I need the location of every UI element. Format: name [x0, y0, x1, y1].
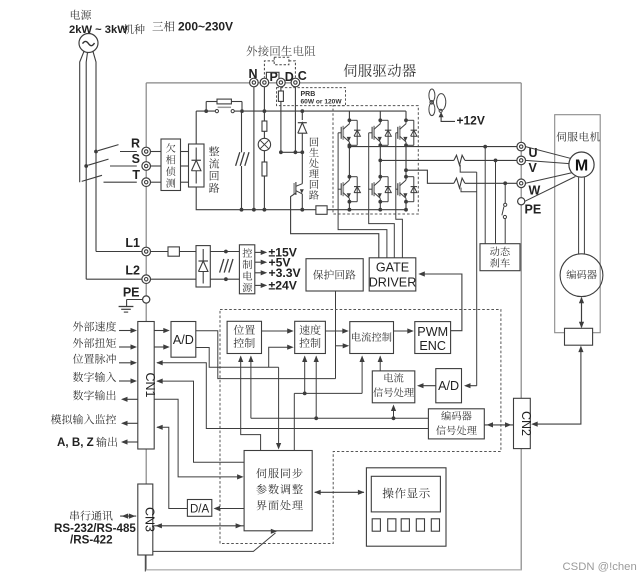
svg-text:M: M [575, 157, 588, 174]
terminal L2 [142, 275, 151, 284]
switch SW-S [88, 159, 108, 165]
wire [263, 151, 265, 162]
wire phase1 [80, 51, 85, 182]
wire csp-current1 [361, 357, 363, 394]
switch SW-R [98, 145, 119, 151]
supply output +3.3V [255, 272, 265, 274]
fuse L1 [151, 251, 169, 253]
svg-text:W: W [529, 184, 541, 198]
wire negative bus [242, 209, 316, 211]
svg-text:CN3: CN3 [142, 507, 156, 532]
wire gate bus leg3 [395, 133, 397, 189]
node bus cap [240, 109, 244, 113]
supply output &#177;15V [255, 251, 265, 253]
wire rect bottom [196, 187, 241, 210]
svg-text:CN2: CN2 [519, 411, 533, 436]
wire current sense tap V [460, 165, 477, 172]
label 位置脉冲 [73, 354, 116, 364]
block 电流控制 [350, 322, 394, 354]
wire P line [263, 87, 265, 121]
wire PE-motor [525, 177, 576, 202]
wire [263, 176, 265, 210]
svg-text:S: S [132, 152, 140, 166]
svg-text:V: V [529, 161, 538, 175]
node diode top [300, 109, 304, 113]
block 欠相侦测 [161, 139, 181, 191]
wire CN3 serial [153, 533, 276, 552]
label 三相 200~230V [153, 21, 175, 32]
wire gate bus leg1 [337, 133, 339, 189]
block A/D 2 [436, 369, 462, 403]
node P bus [263, 109, 267, 113]
motor shaft [578, 177, 580, 254]
wire param bus [294, 392, 362, 394]
terminal S [142, 162, 151, 171]
encoder connector box [565, 328, 593, 345]
resistor bleeder R2 [262, 121, 267, 131]
terminal U [517, 142, 526, 151]
node soft-charge left [204, 109, 208, 113]
wire current-PWM [394, 330, 412, 332]
capacitor C1 [241, 111, 243, 152]
wire phase2 [86, 52, 87, 279]
wire gate2 [369, 189, 395, 258]
AC source G1 [79, 34, 98, 53]
terminal PE [143, 296, 150, 303]
label 回生处理回路 [309, 137, 319, 199]
switch SW-T [82, 175, 102, 181]
wire pos riser1 [241, 357, 261, 451]
block 动态刹车 [480, 244, 520, 271]
terminal C [291, 78, 300, 87]
wire U-motor [526, 147, 571, 159]
node S tap [84, 164, 88, 168]
svg-text:PRB: PRB [301, 91, 316, 98]
wire leg2 mid [379, 145, 381, 176]
wire AD2-csp [419, 385, 436, 387]
terminal L1 [142, 247, 151, 256]
wire to 伺服同步 top [278, 367, 280, 444]
wire csp-current2 [379, 357, 381, 371]
wire U phase [348, 145, 352, 149]
transistor lower Q6 [404, 175, 408, 179]
wire AD out1 [196, 331, 336, 379]
switch brake W [504, 183, 506, 203]
fan [437, 94, 446, 111]
encoder 编码器 [560, 254, 603, 297]
label 数字输出 [73, 390, 116, 400]
svg-text:±24V: ±24V [269, 279, 298, 293]
wire PWM-GATE [420, 274, 462, 331]
wire protection down [335, 291, 337, 379]
wire branch to speed [269, 347, 292, 367]
terminal V [517, 156, 526, 165]
wire DA-CN1 [157, 427, 187, 508]
jumper P-D [266, 72, 279, 78]
wire current sense down [476, 172, 478, 386]
wire CN1-AD 2 [154, 346, 168, 348]
wire encoder-CN2 [535, 352, 581, 425]
terminal P [260, 78, 269, 87]
label power source 电源 [71, 10, 91, 20]
wire V phase [378, 159, 382, 163]
wire L1 feed [96, 251, 142, 253]
wire CN1-AD 1 [154, 330, 168, 332]
wire gate3 [396, 189, 403, 258]
external resistor (dashed) [274, 57, 289, 65]
diode regen D1 [301, 111, 303, 120]
node R tap [94, 150, 98, 154]
terminal D [277, 78, 286, 87]
svg-text:GATE: GATE [376, 261, 409, 275]
wire leg3 mid [405, 145, 407, 176]
label 整流回路 [209, 146, 219, 193]
terminal N [250, 78, 259, 87]
capacitor C2 [225, 252, 227, 259]
relay contact MC [215, 110, 218, 113]
block 伺服同步参数调整界面处理 [244, 451, 312, 531]
PRB box (dashed) [277, 88, 346, 106]
wire pos-speed [262, 330, 292, 332]
terminal R [142, 147, 151, 156]
supply output +5V [255, 261, 265, 263]
block PWM ENC [415, 322, 451, 354]
wire CN1 digital-out [154, 399, 241, 477]
svg-text:T: T [132, 168, 140, 182]
terminal PE motor [518, 198, 525, 205]
wire L2 feed [86, 278, 142, 280]
rectifier BR1 [189, 144, 205, 187]
wire W-motor [526, 173, 572, 184]
block A/D [171, 322, 196, 358]
wire U1-rect S [181, 165, 189, 167]
resistor soft-charge [217, 99, 231, 104]
shunt box [316, 206, 327, 215]
terminal T [142, 178, 151, 187]
wire encoder rail1 [251, 417, 429, 419]
display screen [371, 476, 440, 512]
wire W phase [404, 168, 408, 172]
svg-text:+12V: +12V [457, 114, 485, 128]
label 伺服电机 [556, 132, 600, 142]
wire AD out2 [196, 348, 279, 368]
wire [210, 251, 239, 253]
wire D-C link [281, 151, 302, 153]
wire leg1 mid [348, 145, 350, 176]
block GATE DRIVER [369, 258, 416, 291]
transistor upper Q1 [348, 111, 350, 120]
svg-text:C: C [298, 69, 307, 83]
svg-text:L2: L2 [125, 264, 140, 278]
arrow encoder-connector [581, 298, 583, 328]
block D/A [187, 500, 211, 517]
wire U1-rect T [181, 181, 189, 183]
wire bus right [244, 110, 406, 112]
wire T to U1 [151, 181, 162, 183]
wire V-motor [526, 160, 570, 163]
transistor upper Q3 [405, 111, 407, 120]
svg-text:ENC: ENC [419, 339, 446, 353]
svg-text:PWM: PWM [417, 325, 448, 339]
label 外部速度 [73, 321, 116, 331]
wire csp tap [393, 406, 395, 419]
wire U1-rect R [181, 151, 189, 153]
servo motor box [555, 115, 601, 333]
connector CN3 [138, 484, 153, 555]
wire sync-DA [215, 508, 245, 510]
lamp charge indicator [258, 138, 270, 150]
wire current sense tap W [461, 188, 477, 192]
svg-text:A/D: A/D [438, 379, 459, 393]
arrow sync-display [315, 491, 364, 493]
wire pos riser2 [250, 357, 252, 419]
servo drive enclosure [146, 83, 521, 570]
svg-text:CSDN @!chen: CSDN @!chen [563, 561, 637, 573]
transistor upper Q2 [379, 111, 381, 120]
svg-text:L1: L1 [125, 236, 140, 250]
terminal W [517, 179, 526, 188]
digital section (dashed) [220, 310, 501, 544]
svg-text:2kW ~ 3kW: 2kW ~ 3kW [69, 24, 128, 36]
arrow esp-CN2 [484, 424, 513, 426]
connector CN2 [514, 398, 531, 448]
wire CN1 digital-in [157, 381, 244, 462]
wire [263, 131, 265, 138]
wire 伺服同步 riser [293, 393, 295, 450]
wire PE-CN1 edge [145, 303, 147, 321]
block 位置控制 [227, 321, 261, 353]
label 数字输入 [73, 372, 116, 382]
block 操作显示 panel [366, 468, 446, 546]
svg-text:/RS-422: /RS-422 [70, 534, 113, 547]
display buttons [372, 519, 380, 531]
wire sense-AD2 [464, 383, 471, 388]
block control rectifier [196, 246, 210, 287]
label 外接回生电阻 [247, 46, 316, 57]
block 电流信号处理 [372, 371, 415, 403]
wire rect top [195, 111, 197, 144]
label 模拟输入监控 [51, 414, 116, 424]
wire bus left [196, 110, 215, 112]
ground [127, 299, 143, 301]
wire brake V [495, 160, 497, 243]
svg-text:A, B, Z: A, B, Z [57, 436, 94, 449]
connector CN1 [138, 322, 154, 450]
wire speed riser1 [304, 357, 306, 394]
wire gate1 [338, 189, 387, 258]
arrow CN3-sync [153, 525, 243, 527]
svg-text:DRIVER: DRIVER [369, 276, 417, 290]
svg-text:PE: PE [525, 203, 542, 217]
supply output &#177;24V [255, 284, 265, 286]
motor M [569, 152, 594, 177]
wire N line [253, 87, 255, 210]
transistor lower Q5 [378, 175, 382, 179]
label 外部扭矩 [73, 338, 116, 348]
wire phase3 [93, 51, 96, 252]
wire R to U1 [151, 151, 162, 153]
wire CN3 stub [144, 555, 146, 572]
svg-text:D/A: D/A [190, 503, 210, 515]
resistor regen internal [280, 87, 282, 91]
wire brake U [484, 147, 486, 244]
svg-text:A/D: A/D [173, 333, 194, 347]
inverter bridge box (dashed) [333, 106, 418, 214]
wire C line [294, 87, 296, 153]
wire regen gate [291, 193, 379, 258]
wire S to U1 [151, 165, 162, 167]
relay bar [218, 106, 231, 108]
svg-text:PE: PE [123, 286, 140, 300]
svg-text:R: R [131, 137, 140, 151]
label 串行通讯 [70, 511, 112, 521]
wire L2 [151, 278, 197, 280]
block 保护回路 [306, 259, 363, 291]
wire to current ctrl [336, 345, 348, 347]
label 伺服驱动器 [344, 64, 416, 77]
wire encoder rail2 [157, 363, 428, 429]
resistor bleeder R3 [262, 162, 267, 176]
svg-text:200~230V: 200~230V [178, 20, 233, 34]
wire [210, 278, 239, 280]
wire gate bus leg2 [368, 133, 370, 189]
wire +12V [439, 112, 444, 117]
wire bus mid [234, 110, 521, 112]
block 控制电源 [239, 245, 254, 294]
svg-text:N: N [249, 67, 258, 81]
wire speed riser2 [315, 357, 317, 419]
wire speed-current [325, 330, 346, 332]
block 速度控制 [295, 321, 326, 353]
svg-text:CN1: CN1 [143, 372, 157, 397]
svg-text:60W or 120W: 60W or 120W [301, 98, 343, 105]
block 编码器信号处理 [428, 409, 484, 439]
transistor regen Q7 [301, 152, 303, 183]
transistor lower Q4 [348, 175, 352, 179]
